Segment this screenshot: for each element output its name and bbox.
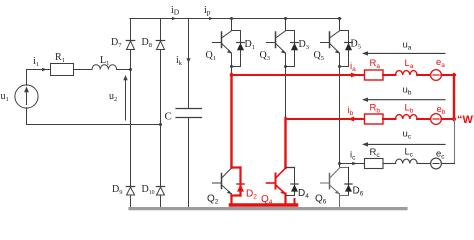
svg-text:Rb: Rb xyxy=(370,103,381,115)
svg-text:Q6: Q6 xyxy=(315,194,327,206)
svg-text:ip: ip xyxy=(204,5,211,17)
inductor Lb xyxy=(396,115,418,119)
transistor Q4 (red) xyxy=(267,168,286,193)
node L1 rail1 junction xyxy=(129,68,132,71)
wire phase b xyxy=(286,118,365,120)
diode D8 xyxy=(157,41,165,50)
svg-text:Q1: Q1 xyxy=(206,50,216,62)
svg-text:Rc: Rc xyxy=(370,147,381,159)
svg-text:ec: ec xyxy=(436,149,445,161)
node phase c junction xyxy=(338,162,341,165)
wire source bottom xyxy=(27,108,161,125)
wire La to ea xyxy=(417,74,431,76)
svg-text:D10: D10 xyxy=(142,184,155,196)
svg-text:Q3: Q3 xyxy=(260,50,270,62)
diode D7 xyxy=(127,41,135,50)
capacitor C xyxy=(176,108,202,110)
svg-text:iD: iD xyxy=(171,5,180,17)
svg-text:C: C xyxy=(165,111,172,123)
svg-text:La: La xyxy=(405,58,414,70)
svg-text:D9: D9 xyxy=(112,184,122,196)
resistor Ra xyxy=(365,70,384,80)
svg-text:R1: R1 xyxy=(55,52,65,64)
wire phase a xyxy=(232,74,365,76)
wire top dc bus xyxy=(130,18,341,20)
node ib arrow xyxy=(348,117,355,122)
svg-text:D7: D7 xyxy=(111,37,122,49)
node W junction xyxy=(452,117,456,121)
wire source top xyxy=(27,70,51,86)
svg-text:Q2: Q2 xyxy=(207,194,219,206)
wire Rc to Lc xyxy=(383,163,396,165)
svg-text:D4: D4 xyxy=(298,188,309,200)
transistor Q5 xyxy=(321,31,340,53)
svg-text:Lc: Lc xyxy=(405,147,414,159)
transistor Q1 xyxy=(213,31,232,53)
transistor Q3 xyxy=(267,31,286,53)
svg-text:u1: u1 xyxy=(1,91,9,103)
wire bottom dc bus xyxy=(130,207,406,210)
diode D2 (red) xyxy=(232,168,241,205)
wire leg1 collector xyxy=(231,19,233,31)
node i1 arrow xyxy=(42,68,47,72)
diode D4 xyxy=(286,167,295,169)
node bottom rail2 junction xyxy=(159,123,162,126)
resistor Rc xyxy=(365,159,384,169)
wire ec to corner xyxy=(441,163,454,165)
node u2 voltage arrow xyxy=(125,78,127,120)
svg-text:D2: D2 xyxy=(246,189,257,201)
svg-text:Lb: Lb xyxy=(405,103,414,115)
wire rectifier rail 2 xyxy=(160,19,162,209)
svg-text:i1: i1 xyxy=(33,56,39,68)
svg-text:“W”: “W” xyxy=(457,114,474,126)
wire red bottom bus segment xyxy=(231,203,297,207)
source eb xyxy=(431,114,442,125)
svg-text:D1: D1 xyxy=(245,39,255,51)
resistor Rb xyxy=(365,114,384,124)
svg-text:u2: u2 xyxy=(109,91,117,103)
node iD arrow on bus xyxy=(172,17,177,20)
wire phase c xyxy=(340,163,365,165)
svg-text:ua: ua xyxy=(403,40,412,52)
inductor Lc xyxy=(396,159,418,163)
svg-text:D8: D8 xyxy=(142,37,152,49)
wire Lb to eb xyxy=(417,118,431,120)
wire gray right drop xyxy=(454,119,456,164)
node ik arrow xyxy=(186,58,190,63)
wire rectifier rail 1 xyxy=(130,19,132,209)
wire Lc to ec xyxy=(417,163,431,165)
inductor L1 xyxy=(92,65,117,70)
node ic arrow xyxy=(352,162,357,166)
wire eb to corner xyxy=(441,118,455,120)
svg-text:ik: ik xyxy=(176,55,183,67)
diode D9 xyxy=(127,187,135,195)
wire leg1 red drop xyxy=(230,74,232,168)
svg-text:ub: ub xyxy=(403,85,412,97)
wire capacitor rail xyxy=(188,19,190,109)
svg-text:D5: D5 xyxy=(351,39,361,51)
wire leg2 red drop xyxy=(284,118,286,168)
wire red right drop xyxy=(453,74,455,120)
wire leg1 phase stub xyxy=(231,67,233,75)
svg-text:ea: ea xyxy=(436,57,445,69)
transistor Q6 xyxy=(321,168,340,193)
node ub voltage arrow xyxy=(364,99,445,101)
node ia arrow xyxy=(351,73,358,78)
diode D5 xyxy=(340,30,349,32)
svg-text:ib: ib xyxy=(348,105,354,117)
wire leg2 phase drop xyxy=(285,67,287,119)
svg-text:uc: uc xyxy=(403,129,412,141)
svg-text:eb: eb xyxy=(437,104,446,116)
diode D10 xyxy=(157,187,165,195)
svg-text:D6: D6 xyxy=(353,186,364,198)
svg-text:D3: D3 xyxy=(299,39,309,51)
transistor Q2 xyxy=(213,168,232,193)
source ec xyxy=(431,158,442,169)
node ua voltage arrow xyxy=(364,52,445,54)
wire ea to corner xyxy=(441,74,455,76)
wire Rb to Lb xyxy=(383,118,396,120)
node phase a junction xyxy=(230,73,234,77)
diode D1 xyxy=(232,30,241,32)
svg-text:Ra: Ra xyxy=(370,58,381,70)
svg-text:ic: ic xyxy=(350,150,356,162)
wire red stub to D4 bottom xyxy=(294,199,296,205)
node ip arrow on bus xyxy=(209,17,214,20)
wire leg3 phase drop xyxy=(339,67,341,168)
resistor R1 xyxy=(51,64,74,76)
svg-text:ia: ia xyxy=(350,61,356,73)
svg-text:L1: L1 xyxy=(100,55,109,67)
node bus junction leg1 xyxy=(230,17,233,20)
diode D3 xyxy=(286,30,295,32)
source u1 xyxy=(15,85,38,108)
inductor La xyxy=(396,71,418,75)
wire Ra to La xyxy=(383,74,396,76)
node uc voltage arrow xyxy=(364,143,445,145)
wire L1 to bridge xyxy=(117,69,131,71)
diode D6 xyxy=(340,167,349,169)
wire R1 to L1 xyxy=(74,69,93,71)
source ea xyxy=(431,70,442,81)
svg-text:Q5: Q5 xyxy=(314,50,324,62)
